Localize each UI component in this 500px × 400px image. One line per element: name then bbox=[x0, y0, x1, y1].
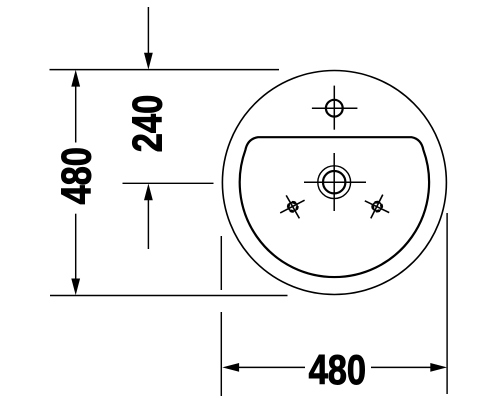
faucet hole crosshair bbox=[312, 86, 358, 130]
svg-text:240: 240 bbox=[124, 95, 171, 152]
drain crosshair bbox=[304, 153, 366, 211]
faucet hole circle bbox=[326, 100, 343, 117]
fixing hole marker left bbox=[280, 195, 304, 218]
dimension line 480 left bbox=[71, 70, 80, 295]
dimension line 480 bottom bbox=[222, 363, 447, 372]
dimension 240 bottom arrow bbox=[144, 184, 153, 250]
inner basin outline bbox=[240, 137, 429, 277]
washbasin outer rim circle bbox=[222, 71, 446, 295]
extension line bottom tangent bbox=[50, 295, 288, 297]
svg-text:480: 480 bbox=[309, 347, 366, 394]
drain outer circle bbox=[318, 166, 351, 199]
extension line bottom-left vertical bbox=[220, 236, 222, 396]
extension line bottom-right vertical bbox=[446, 213, 448, 394]
extension line drain centerline bbox=[123, 182, 214, 184]
fixing hole marker right bbox=[365, 195, 389, 219]
dimension 240 top arrow bbox=[144, 7, 153, 70]
extension line top tangent bbox=[50, 69, 280, 71]
drain inner circle bbox=[323, 171, 345, 193]
svg-text:480: 480 bbox=[53, 147, 100, 204]
